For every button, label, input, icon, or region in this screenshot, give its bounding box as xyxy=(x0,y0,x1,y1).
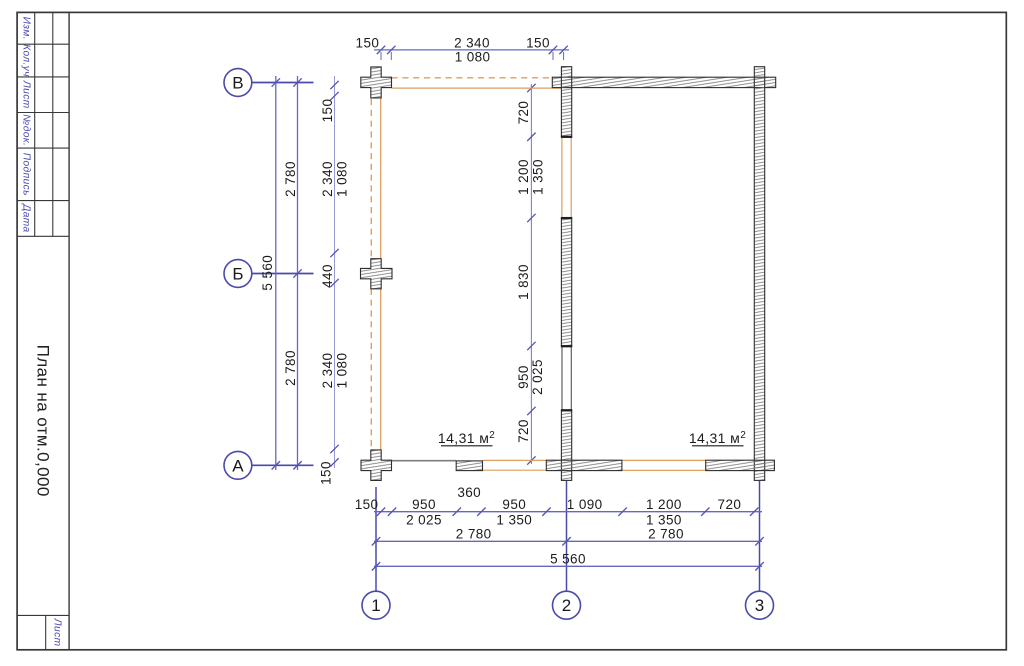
door opening faces bottom right xyxy=(622,459,706,461)
svg-text:1 080: 1 080 xyxy=(335,353,350,389)
svg-text:720: 720 xyxy=(516,419,531,443)
middle wall (axis 2) segment bottom xyxy=(561,410,571,480)
log cross axis 1 x А xyxy=(361,450,392,481)
axis leader line 1 xyxy=(375,487,377,591)
svg-text:150: 150 xyxy=(320,99,335,123)
svg-text:150: 150 xyxy=(526,35,550,50)
svg-text:150: 150 xyxy=(356,35,380,50)
bottom wall band left part (axis А, 2-3) xyxy=(546,460,622,470)
left wall inner face xyxy=(380,98,382,259)
inner dimension line (room heights) xyxy=(530,84,532,464)
bottom dimension line 2 780 + 2 780 xyxy=(374,540,762,542)
svg-text:1 080: 1 080 xyxy=(335,161,350,197)
svg-text:1 830: 1 830 xyxy=(516,264,531,300)
svg-text:720: 720 xyxy=(516,101,531,125)
svg-text:2 340: 2 340 xyxy=(320,353,335,389)
top wall inner face xyxy=(392,87,562,89)
svg-text:150: 150 xyxy=(319,461,334,485)
svg-text:В: В xyxy=(232,74,243,93)
dimension line 2 780 x2 (left) xyxy=(297,76,299,470)
svg-text:720: 720 xyxy=(718,497,742,512)
svg-text:150: 150 xyxy=(355,497,379,512)
svg-text:2 025: 2 025 xyxy=(530,359,545,395)
middle wall lower opening faces (grey) xyxy=(561,347,563,410)
middle wall (axis 2) segment mid xyxy=(561,218,571,346)
svg-text:14,31 м2: 14,31 м2 xyxy=(438,430,495,446)
svg-text:1 350: 1 350 xyxy=(496,512,532,527)
svg-text:2 780: 2 780 xyxy=(283,350,298,386)
svg-text:1 350: 1 350 xyxy=(531,159,546,195)
dimension line 5 560 (left) xyxy=(275,76,277,470)
top wall outer face (dashed) xyxy=(392,77,553,79)
svg-text:1 350: 1 350 xyxy=(646,512,682,527)
axis leader line 3 xyxy=(759,481,761,591)
svg-text:А: А xyxy=(232,456,244,475)
axis line А xyxy=(252,464,314,466)
svg-text:950: 950 xyxy=(502,497,526,512)
door opening faces bottom left xyxy=(483,459,547,461)
svg-text:2 780: 2 780 xyxy=(456,527,492,542)
svg-text:5 560: 5 560 xyxy=(260,255,275,291)
opening end caps on axis 2 wall xyxy=(561,136,572,138)
axis circle В xyxy=(224,69,252,97)
axis circle 1 xyxy=(362,591,390,619)
svg-text:2: 2 xyxy=(562,596,571,615)
bottom dimension line 5 560 xyxy=(374,565,762,567)
svg-text:Изм.: Изм. xyxy=(21,17,32,40)
bottom wall band right part (axis А, 2-3) xyxy=(706,460,775,470)
svg-text:Лист: Лист xyxy=(21,80,32,109)
dimension chain line (left inner) xyxy=(334,76,336,468)
log cross axis 1 x В xyxy=(361,67,392,98)
left wall outer face (dashed) xyxy=(370,99,372,259)
axis circle 2 xyxy=(553,591,581,619)
extension stubs top dim xyxy=(380,52,382,60)
svg-text:5 560: 5 560 xyxy=(550,552,586,567)
title strip column lines xyxy=(34,12,36,236)
log cross axis 1 x Б xyxy=(361,259,393,289)
sheet list box xyxy=(17,614,69,616)
svg-text:14,31 м2: 14,31 м2 xyxy=(689,430,746,446)
axis circle А xyxy=(224,451,252,479)
svg-text:Кол.уч: Кол.уч xyxy=(21,44,32,77)
svg-text:1: 1 xyxy=(371,596,380,615)
svg-text:План на отм.0,000: План на отм.0,000 xyxy=(34,345,53,497)
title strip row lines xyxy=(17,43,69,45)
svg-text:Б: Б xyxy=(232,265,243,284)
axis circle 3 xyxy=(746,591,774,619)
axis leader line 2 xyxy=(566,481,568,591)
axis line Б xyxy=(252,273,314,275)
svg-text:440: 440 xyxy=(320,264,335,288)
axis line В xyxy=(252,82,314,84)
svg-text:Подпись: Подпись xyxy=(21,153,32,196)
middle wall (axis 2) segment top xyxy=(561,67,571,137)
svg-text:1 200: 1 200 xyxy=(646,497,682,512)
svg-text:1 080: 1 080 xyxy=(455,50,491,65)
wall pier on axis А xyxy=(456,461,482,471)
svg-text:Лист: Лист xyxy=(52,618,63,647)
svg-text:1 200: 1 200 xyxy=(516,159,531,195)
svg-text:2 025: 2 025 xyxy=(406,512,442,527)
right wall (axis 3) xyxy=(754,67,764,481)
svg-text:Дата: Дата xyxy=(21,203,32,232)
svg-text:2 780: 2 780 xyxy=(283,161,298,197)
svg-text:360: 360 xyxy=(457,485,481,500)
svg-text:2 340: 2 340 xyxy=(320,161,335,197)
top wall band (axis В, 2-3) xyxy=(552,77,775,87)
svg-text:2 340: 2 340 xyxy=(454,35,490,50)
svg-text:950: 950 xyxy=(412,497,436,512)
svg-text:2 780: 2 780 xyxy=(648,527,684,542)
middle wall upper opening faces xyxy=(561,138,563,217)
top dimension line xyxy=(374,49,569,51)
svg-text:950: 950 xyxy=(516,365,531,389)
bottom dimension chain line xyxy=(374,511,762,513)
svg-text:3: 3 xyxy=(755,596,764,615)
svg-text:1 090: 1 090 xyxy=(567,497,603,512)
bottom wall inner face line (grey) xyxy=(392,460,457,462)
axis circle Б xyxy=(224,260,252,288)
svg-text:№док.: №док. xyxy=(21,114,32,146)
